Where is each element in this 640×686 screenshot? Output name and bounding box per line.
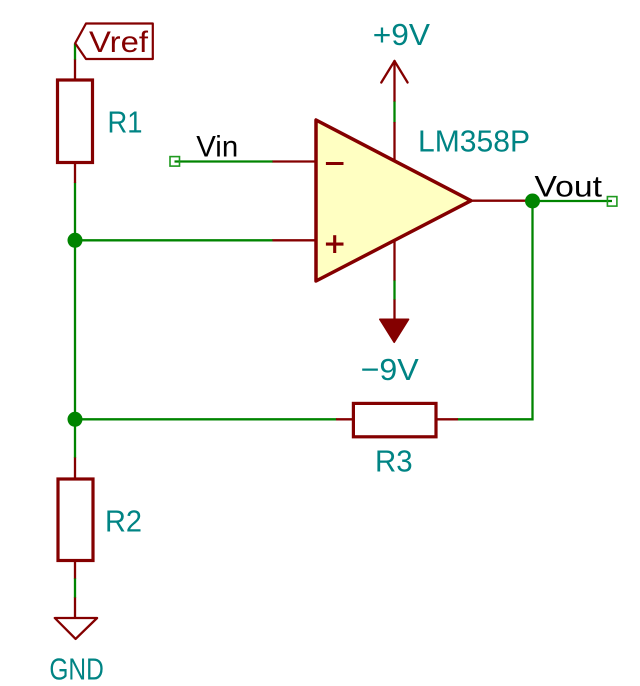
svg-text:Vout: Vout [535,170,603,203]
svg-text:Vref: Vref [89,26,149,59]
svg-text:LM358P: LM358P [418,123,530,158]
svg-text:−9V: −9V [361,352,420,387]
svg-text:R2: R2 [105,504,142,539]
svg-text:Vin: Vin [196,131,238,164]
svg-text:R1: R1 [108,105,143,140]
svg-text:+9V: +9V [373,17,431,52]
svg-text:R3: R3 [375,444,413,479]
svg-text:GND: GND [49,651,103,686]
